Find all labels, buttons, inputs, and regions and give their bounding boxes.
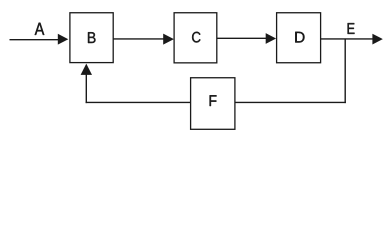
wire: feedback left segment [86,101,191,103]
node A label [35,23,45,35]
wire: feedback rise into B [85,74,87,103]
block D [277,13,321,63]
wire: B to C [113,38,164,40]
block C [174,13,217,63]
block F label [210,95,217,106]
arrowhead into block C [163,34,174,45]
arrowhead into block D [266,33,276,44]
wire: input line A [10,39,61,41]
block C label [192,32,200,43]
arrowhead output E [372,34,382,45]
arrowhead into block B [58,34,69,45]
arrowhead into bottom of block B [81,64,92,75]
block F [191,78,235,130]
block B [70,13,113,63]
node E label [348,23,355,34]
wire: branch drop from output [344,39,346,103]
wire: feedback right segment [235,101,346,103]
wire: output line from D [321,38,373,40]
block B label [88,32,96,43]
block D label [295,32,304,43]
wire: C to D [217,37,267,39]
